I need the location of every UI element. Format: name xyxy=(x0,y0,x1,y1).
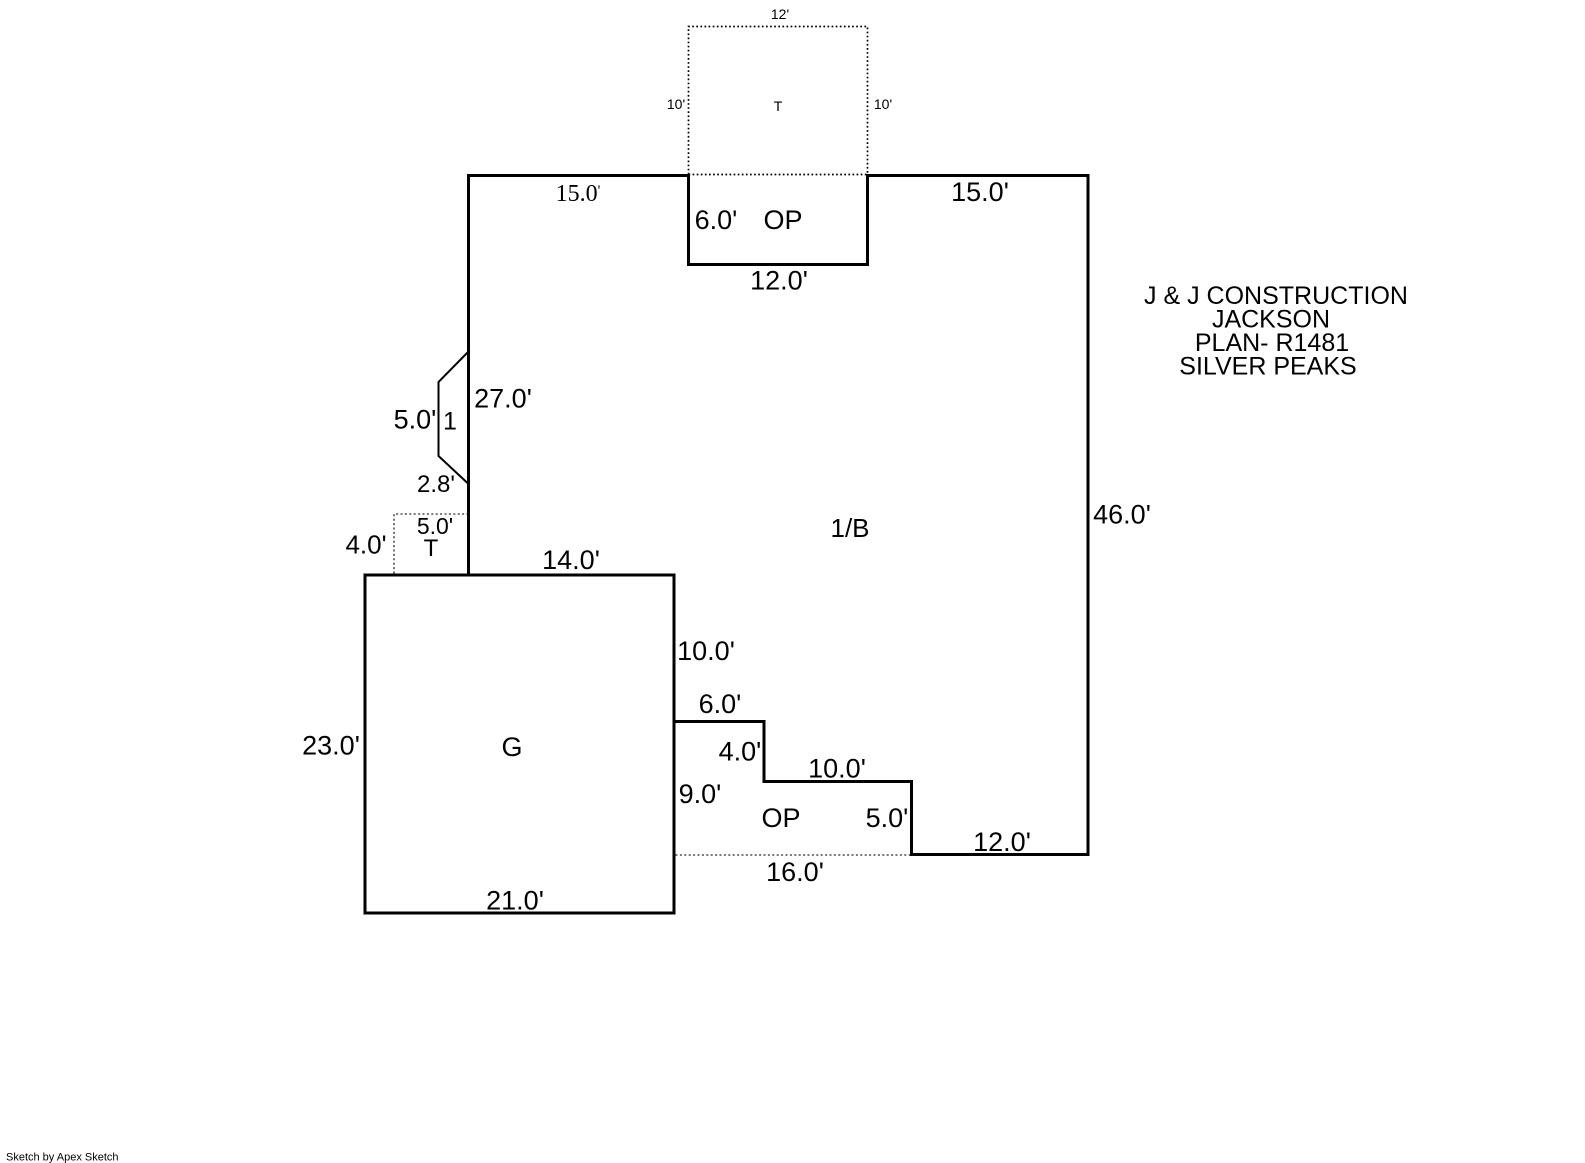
svg-text:4.0': 4.0' xyxy=(345,530,386,560)
svg-text:T: T xyxy=(774,98,783,114)
svg-text:5.0': 5.0' xyxy=(866,803,909,833)
svg-text:5.0': 5.0' xyxy=(394,405,437,435)
svg-text:1/B: 1/B xyxy=(830,513,869,543)
svg-text:12.0': 12.0' xyxy=(973,827,1031,857)
svg-text:10': 10' xyxy=(667,96,685,112)
dotted deck T bottom edge xyxy=(689,174,868,176)
svg-text:21.0': 21.0' xyxy=(486,886,544,916)
svg-text:4.0': 4.0' xyxy=(719,737,762,767)
svg-text:27.0': 27.0' xyxy=(474,384,532,414)
svg-text:12': 12' xyxy=(771,6,789,22)
title block xyxy=(1144,282,1408,381)
svg-text:15.0': 15.0' xyxy=(556,181,601,207)
dotted OP bottom edge xyxy=(676,854,911,856)
svg-text:10': 10' xyxy=(874,96,892,112)
svg-text:1: 1 xyxy=(443,408,457,436)
svg-text:6.0': 6.0' xyxy=(695,205,738,235)
svg-text:OP: OP xyxy=(763,205,802,235)
main 1/B outline xyxy=(469,174,1089,855)
bay window 1 xyxy=(439,352,469,484)
svg-text:Sketch by Apex Sketch: Sketch by Apex Sketch xyxy=(6,1152,119,1163)
svg-text:12.0': 12.0' xyxy=(750,266,808,296)
svg-text:9.0': 9.0' xyxy=(679,779,722,809)
svg-text:10.0': 10.0' xyxy=(677,636,735,666)
svg-text:SILVER PEAKS: SILVER PEAKS xyxy=(1179,353,1356,381)
svg-text:6.0': 6.0' xyxy=(699,689,742,719)
garage G rectangle xyxy=(365,575,674,913)
dotted deck T outline (top) xyxy=(689,27,868,175)
svg-text:10.0': 10.0' xyxy=(808,754,866,784)
svg-text:2.8': 2.8' xyxy=(417,471,455,498)
svg-text:23.0': 23.0' xyxy=(302,731,360,761)
svg-text:OP: OP xyxy=(761,803,800,833)
svg-text:T: T xyxy=(424,535,439,562)
dotted stoop T (small, left) xyxy=(394,514,467,574)
svg-text:46.0': 46.0' xyxy=(1093,500,1151,530)
svg-text:16.0': 16.0' xyxy=(766,857,824,887)
svg-text:15.0': 15.0' xyxy=(951,177,1009,207)
svg-text:14.0': 14.0' xyxy=(542,545,600,575)
svg-text:G: G xyxy=(501,732,522,762)
